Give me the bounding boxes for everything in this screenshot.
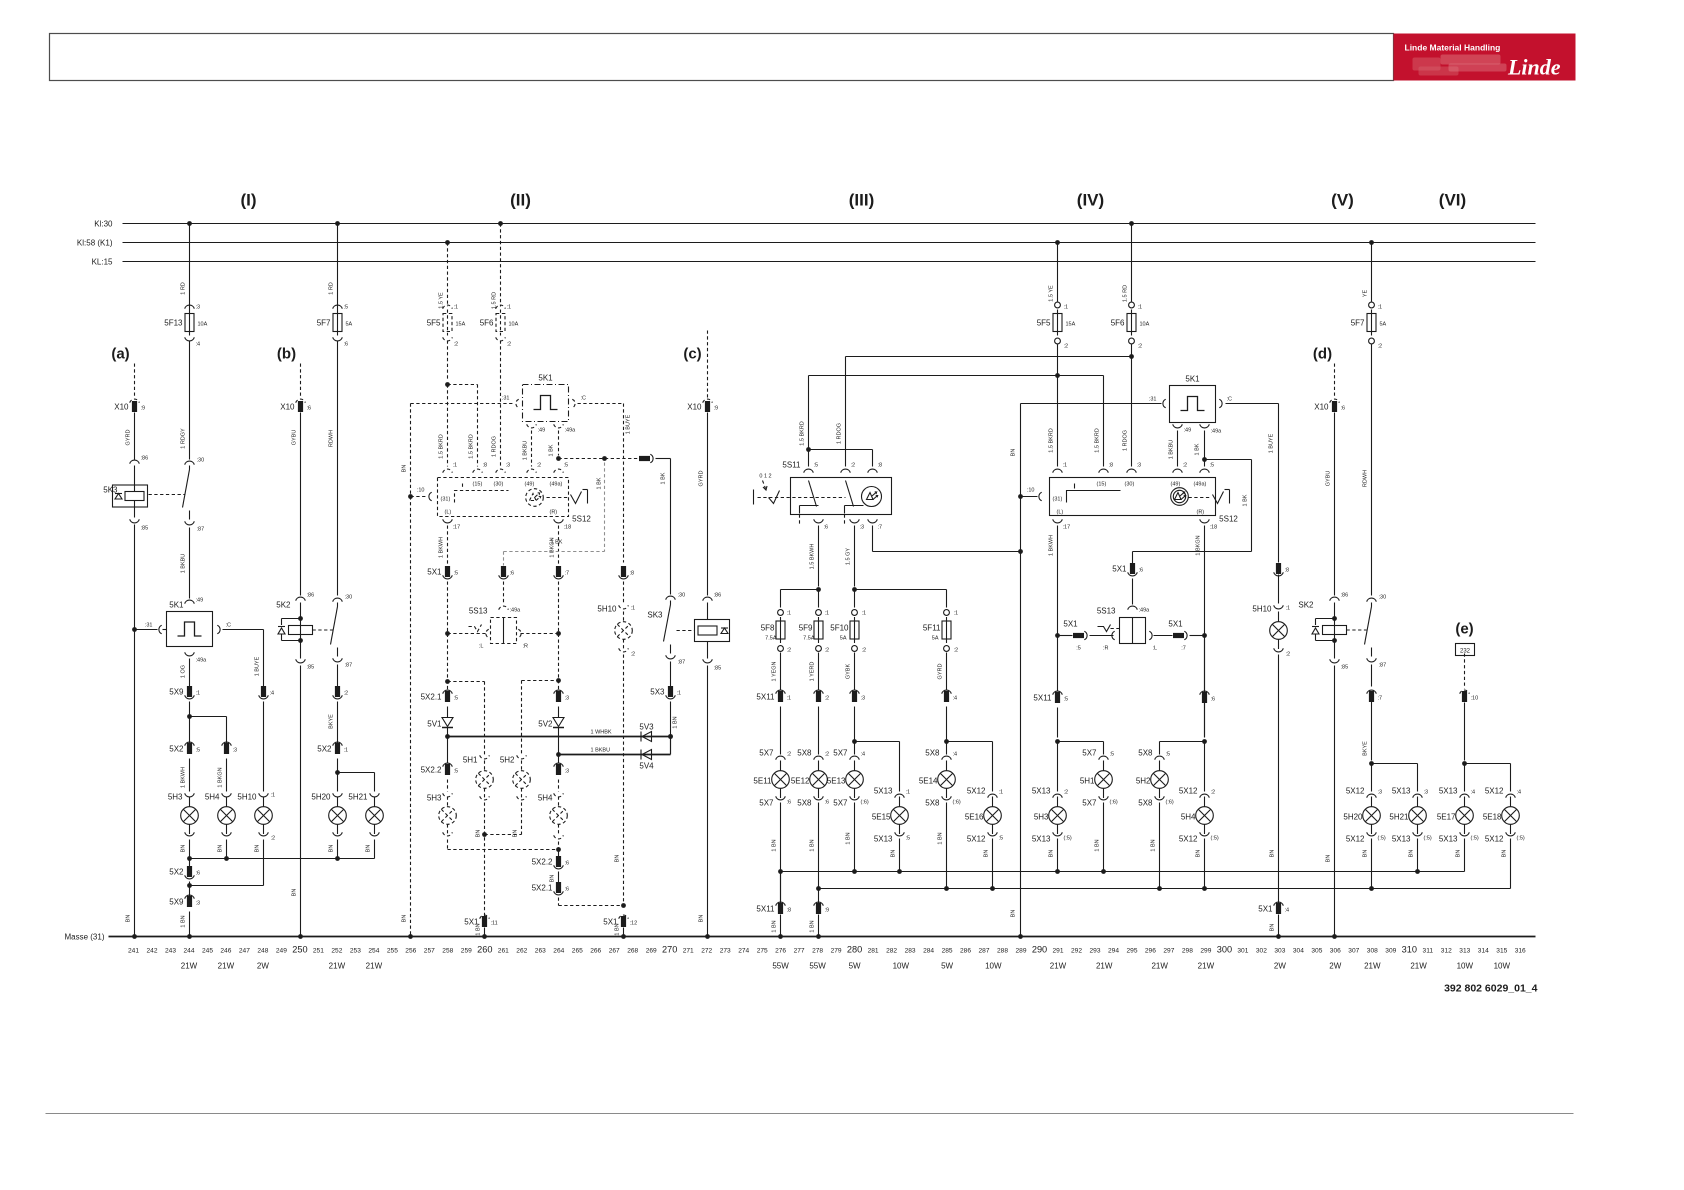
wire KL:30 bus: [123, 223, 1536, 225]
svg-text:5X8: 5X8: [925, 749, 940, 758]
svg-text:248: 248: [257, 948, 268, 955]
wire 1.5 GY: [854, 526, 856, 587]
svg-text:287: 287: [978, 948, 989, 955]
svg-text:232: 232: [1460, 649, 1471, 655]
connector 5X1:7 (IV): [1173, 633, 1184, 638]
wire 1 RD from KL:30: [187, 221, 192, 226]
svg-text::49: :49: [538, 428, 546, 434]
wire feed bus to 5F6 IV: [846, 356, 1132, 358]
svg-text:(:6): (:6): [1110, 800, 1118, 806]
footer rule: [46, 1113, 1574, 1115]
svg-text:5A: 5A: [840, 636, 847, 642]
wire GYRD: [707, 413, 709, 596]
svg-text:5H10: 5H10: [597, 605, 617, 614]
wire branch to 5H21: [1372, 763, 1418, 765]
wire lamp return bus B: [819, 888, 1511, 890]
svg-text:X10: X10: [280, 403, 295, 412]
svg-text:5A: 5A: [1380, 322, 1387, 328]
svg-text::31: :31: [1149, 397, 1157, 403]
junction: [1018, 549, 1023, 554]
wire 1 BN: [1103, 803, 1105, 872]
svg-text::3: :3: [565, 769, 570, 775]
node :86 relay SK3: [703, 597, 713, 601]
svg-text::8: :8: [878, 463, 883, 469]
svg-text::3: :3: [860, 525, 865, 531]
wire BN: [992, 839, 994, 889]
svg-text:5E13: 5E13: [827, 777, 846, 786]
lamp 5H3 (II): [447, 780, 449, 792]
svg-text:265: 265: [572, 948, 583, 955]
svg-text:BN: BN: [329, 845, 335, 853]
wire branch to 5H1: [1058, 741, 1104, 743]
node :7 5S11: [868, 519, 878, 523]
lamp 5H10 (V): [1278, 575, 1280, 604]
junction: [1202, 739, 1207, 744]
svg-text::7: :7: [1181, 646, 1186, 652]
svg-text::30: :30: [197, 458, 205, 464]
lamp 5H4: [222, 793, 232, 797]
svg-text::18: :18: [1210, 525, 1218, 531]
wire BN to Masse 272: [707, 666, 709, 937]
junction: [1055, 869, 1060, 874]
svg-text::18: :18: [564, 525, 572, 531]
wire: [447, 728, 449, 764]
wire dashed: [447, 840, 449, 850]
svg-text:5X13: 5X13: [1439, 787, 1458, 796]
svg-text:5E11: 5E11: [753, 777, 772, 786]
svg-text:(L): (L): [445, 510, 452, 516]
connector 5X1:7: [556, 566, 561, 577]
svg-text:5H3: 5H3: [168, 793, 183, 802]
svg-text::2: :2: [954, 648, 959, 654]
svg-text::17: :17: [1063, 525, 1071, 531]
lamp 5E16 with 5X12 connectors: [988, 794, 998, 798]
svg-text:5S13: 5S13: [469, 607, 488, 616]
svg-text:5X11: 5X11: [756, 693, 775, 702]
svg-text:(c): (c): [683, 346, 701, 363]
svg-text:1.5 YE: 1.5 YE: [1049, 285, 1055, 302]
svg-text:277: 277: [794, 948, 805, 955]
svg-text:5H4: 5H4: [205, 793, 220, 802]
junction: [668, 734, 673, 739]
lamp 5E18 with 5X12 connectors: [1506, 794, 1516, 798]
svg-text:284: 284: [923, 948, 934, 955]
svg-text:266: 266: [590, 948, 601, 955]
wire dashed 5H2 feed: [522, 680, 559, 682]
svg-text:258: 258: [442, 948, 453, 955]
svg-text:1 BN: 1 BN: [772, 839, 778, 851]
svg-text:RDWH: RDWH: [1363, 470, 1369, 487]
junction Masse 241: [132, 934, 137, 939]
junction: [445, 679, 450, 684]
node 232 box: [1456, 644, 1475, 656]
svg-text::85: :85: [1341, 665, 1349, 671]
junction: [1129, 354, 1134, 359]
junction: [944, 886, 949, 891]
svg-text::2: :2: [1064, 344, 1069, 350]
wire 1 BN: [854, 803, 856, 872]
wire GYRD: [946, 653, 948, 691]
svg-text:BN: BN: [402, 465, 408, 473]
wire Masse 31 ground bus: [109, 936, 1536, 938]
svg-text::1: :1: [454, 305, 459, 311]
wire dashed to SK3 coil feed: [559, 458, 639, 460]
svg-text:1 BN: 1 BN: [938, 832, 944, 844]
svg-text:2W: 2W: [257, 962, 269, 971]
connector 5X2.2:3: [554, 763, 564, 767]
svg-text::31: :31: [145, 623, 153, 629]
svg-text:5F7: 5F7: [1351, 319, 1365, 328]
svg-text::2: :2: [851, 463, 856, 469]
connector 5X1:12: [619, 915, 629, 919]
svg-text::7: :7: [1378, 696, 1383, 702]
svg-text::5: :5: [454, 696, 459, 702]
svg-text:5K2: 5K2: [276, 601, 291, 610]
svg-text:1.5 BKRD: 1.5 BKRD: [439, 434, 445, 458]
connector 5X2.1:6: [556, 882, 561, 893]
svg-text::C: :C: [1227, 397, 1233, 403]
svg-text:GYBU: GYBU: [292, 430, 298, 446]
junction: [621, 903, 626, 908]
svg-text:(R): (R): [550, 510, 558, 516]
svg-text:307: 307: [1348, 948, 1359, 955]
svg-text:(L): (L): [1057, 510, 1064, 516]
svg-text:1 BN: 1 BN: [476, 923, 482, 935]
wire 1.5 BKRD riser :8: [1103, 376, 1105, 467]
wire 1.5 BKRD: [1057, 345, 1059, 467]
connector 5X11:2: [814, 690, 824, 694]
wire BN: [1204, 839, 1206, 889]
connector 5X2.1:5: [443, 690, 453, 694]
wire BN: [1464, 839, 1466, 872]
Linde logo box: [1394, 34, 1576, 81]
svg-text::4: :4: [1471, 790, 1476, 796]
svg-text::6: :6: [344, 342, 349, 348]
wire: [189, 702, 191, 744]
wire 1 WHBK: [448, 736, 671, 738]
svg-text:5H3: 5H3: [1034, 813, 1049, 822]
svg-text:285: 285: [942, 948, 953, 955]
wire BN: [189, 840, 191, 867]
svg-text:274: 274: [738, 948, 749, 955]
svg-text:10A: 10A: [509, 322, 519, 328]
svg-text::6: :6: [565, 887, 570, 893]
wire 1 BN: [780, 803, 782, 909]
svg-text:X10: X10: [1314, 403, 1329, 412]
svg-text::6: :6: [565, 861, 570, 867]
svg-text:5F6: 5F6: [1111, 319, 1125, 328]
indicator lamp in 5S11: [862, 487, 882, 507]
junction: [1157, 886, 1162, 891]
svg-text:5X1: 5X1: [427, 568, 442, 577]
svg-text:5W: 5W: [849, 962, 861, 971]
svg-text:5K1: 5K1: [1185, 375, 1200, 384]
svg-text::11: :11: [491, 921, 498, 927]
svg-text:1 RD: 1 RD: [181, 282, 187, 295]
wire 1 RDOG dashed: [500, 341, 502, 467]
wire 1 BN to Masse 244: [189, 912, 191, 937]
junction: [1055, 739, 1060, 744]
wire GYBU: [300, 413, 302, 596]
connector 5X1:6: [501, 566, 506, 577]
svg-text:1.5 BKRD: 1.5 BKRD: [1095, 428, 1101, 452]
svg-text:5X8: 5X8: [1138, 799, 1153, 808]
node :85 relay SK3: [703, 659, 713, 663]
wire BN dashed: [623, 655, 625, 906]
svg-text:5X13: 5X13: [874, 787, 893, 796]
wire to 5S13 left: [1090, 635, 1114, 637]
wire BKYE: [337, 702, 339, 744]
svg-text:243: 243: [165, 948, 176, 955]
svg-text::L: :L: [479, 644, 484, 650]
node :17 (II): [443, 519, 453, 523]
wire GYBU: [1334, 413, 1336, 596]
wire 1 RD from KL:30: [335, 221, 340, 226]
wire dashed 5H1 feed: [448, 681, 485, 683]
svg-text:245: 245: [202, 948, 213, 955]
wire 1 BN to Masse: [623, 928, 625, 937]
svg-text:283: 283: [905, 948, 916, 955]
svg-text:YE: YE: [1363, 290, 1369, 298]
wire 5K1:C to 5H10 feed: [223, 629, 264, 631]
junction: [816, 587, 821, 592]
junction: [1055, 373, 1060, 378]
wire X10:6d dashed lead: [1334, 364, 1336, 398]
svg-text::8: :8: [630, 571, 635, 577]
junction: [602, 456, 607, 461]
svg-text:5H3: 5H3: [427, 794, 442, 803]
svg-text:55W: 55W: [809, 962, 826, 971]
redacted text blur: [1413, 58, 1441, 71]
svg-text::2: :2: [1138, 344, 1143, 350]
svg-text::2: :2: [787, 752, 792, 758]
wire 5K1:31 to BN dashed: [411, 403, 515, 405]
svg-text:294: 294: [1108, 948, 1119, 955]
flasher contact symbol (IV): [1067, 491, 1121, 503]
svg-text:1 RDOG: 1 RDOG: [492, 436, 498, 457]
connector X10:6 (d): [1330, 399, 1340, 403]
wire branch to 5H4: [190, 716, 227, 718]
junction: [806, 447, 811, 452]
lamp 5H3 with 5X13 connectors: [1057, 742, 1059, 792]
svg-text:5V4: 5V4: [639, 762, 654, 771]
lamp 5H3: [185, 793, 195, 797]
svg-text::4: :4: [1285, 908, 1290, 914]
svg-text:BN: BN: [402, 915, 408, 923]
wire branch to 5F8: [781, 589, 819, 591]
svg-text::8: :8: [483, 463, 488, 469]
svg-text:5X1: 5X1: [1112, 565, 1127, 574]
svg-text:246: 246: [220, 948, 231, 955]
svg-text:5X12: 5X12: [967, 835, 986, 844]
wire dashed coil-contact link 5K2: [313, 629, 334, 631]
svg-text:RDWH: RDWH: [329, 430, 335, 447]
svg-text:(:6): (:6): [953, 800, 961, 806]
svg-text::10: :10: [417, 488, 425, 494]
svg-text::85: :85: [307, 665, 315, 671]
wire KL:58 bus: [123, 242, 1536, 244]
svg-text::1: :1: [507, 305, 512, 311]
svg-text:(:6): (:6): [1166, 800, 1174, 806]
junction: [1055, 633, 1060, 638]
wire 1.5 YE dashed from KL:58: [445, 240, 450, 245]
svg-text::1: :1: [271, 793, 276, 799]
wire dashed: [447, 341, 449, 381]
junction: [187, 883, 192, 888]
svg-text:1 BK: 1 BK: [1243, 494, 1249, 506]
lamp 5H21 (I): [370, 793, 380, 797]
svg-text::1: :1: [787, 611, 792, 617]
svg-text:(:5): (:5): [1378, 836, 1386, 842]
svg-text::1: :1: [344, 748, 349, 754]
svg-text:21W: 21W: [1364, 962, 1381, 971]
wire 1 BN: [670, 702, 672, 755]
wire 1 BN to Masse 260: [484, 928, 486, 937]
svg-text:5E17: 5E17: [1437, 813, 1456, 822]
svg-text::1: :1: [453, 463, 458, 469]
lamp 5E11 with 5X7 connectors: [776, 756, 786, 760]
svg-text:1 BK: 1 BK: [551, 540, 563, 546]
svg-text:271: 271: [683, 948, 694, 955]
svg-text:(:5): (:5): [1211, 836, 1219, 842]
svg-text::2: :2: [1211, 790, 1216, 796]
svg-text:5F7: 5F7: [317, 319, 331, 328]
svg-text:268: 268: [627, 948, 638, 955]
svg-text:1 BUYE: 1 BUYE: [626, 414, 632, 434]
svg-text::3: :3: [506, 463, 511, 469]
wire 5H10 return: [190, 885, 264, 887]
svg-text:10A: 10A: [198, 322, 208, 328]
wire branch to 5E18: [1465, 763, 1511, 765]
svg-text:15A: 15A: [1066, 322, 1076, 328]
svg-text:1 BKGN: 1 BKGN: [1196, 535, 1202, 555]
svg-text::5: :5: [999, 836, 1004, 842]
switch 5S13 (IV): [1132, 579, 1134, 605]
svg-text:(49): (49): [1171, 482, 1181, 488]
svg-text:5H20: 5H20: [311, 793, 331, 802]
wire BN to Masse terminal 241: [134, 525, 136, 937]
wire feed bus to 5F5 IV: [809, 375, 1104, 377]
wire branch to 5S11:8: [809, 449, 873, 451]
svg-text::3: :3: [1424, 790, 1429, 796]
wire 1 OG: [189, 659, 191, 687]
svg-text:BN: BN: [1049, 850, 1055, 858]
svg-text:GYBU: GYBU: [1326, 471, 1332, 487]
svg-text:288: 288: [997, 948, 1008, 955]
svg-text:(R): (R): [1197, 510, 1205, 516]
connector 5X11:3: [850, 690, 860, 694]
svg-text:10W: 10W: [985, 962, 1002, 971]
svg-text:304: 304: [1293, 948, 1304, 955]
svg-text:5X11: 5X11: [1033, 694, 1052, 703]
svg-text:(15): (15): [1097, 482, 1107, 488]
svg-text::6: :6: [1211, 697, 1216, 703]
wire: [447, 707, 449, 718]
wire RDWH: [337, 341, 339, 596]
wire to 5F10: [854, 590, 856, 608]
svg-text:244: 244: [183, 948, 194, 955]
svg-text:1.5 BKRD: 1.5 BKRD: [800, 421, 806, 445]
svg-text:5X2: 5X2: [169, 868, 184, 877]
svg-text:(30): (30): [494, 482, 504, 488]
svg-text::10: :10: [1471, 696, 1479, 702]
svg-text:X10: X10: [114, 403, 129, 412]
connector 5X11:9: [814, 902, 824, 906]
svg-text::31: :31: [502, 396, 510, 402]
svg-text:5S13: 5S13: [1097, 607, 1116, 616]
svg-text:1 BKWH: 1 BKWH: [181, 767, 187, 788]
svg-text::49a: :49a: [1139, 608, 1151, 614]
svg-text:279: 279: [831, 948, 842, 955]
svg-text:(a): (a): [111, 346, 129, 363]
svg-text::3: :3: [1137, 463, 1142, 469]
svg-text::5: :5: [196, 748, 201, 754]
svg-text:BN: BN: [1270, 850, 1276, 858]
svg-text:5X2: 5X2: [317, 745, 332, 754]
svg-text:1 RDGY: 1 RDGY: [181, 428, 187, 449]
wire BN dashed to Masse 256: [410, 404, 412, 937]
svg-text:5H2: 5H2: [1136, 777, 1151, 786]
svg-text::1: :1: [906, 790, 911, 796]
wire 1 BKBU: [1177, 431, 1179, 467]
connector 5X1:4: [1274, 902, 1284, 906]
svg-text:267: 267: [609, 948, 620, 955]
svg-text:275: 275: [757, 948, 768, 955]
svg-text::2: :2: [344, 691, 349, 697]
svg-text:BN: BN: [126, 915, 132, 923]
svg-text::6: :6: [787, 800, 792, 806]
svg-text:5S11: 5S11: [782, 461, 801, 470]
svg-text::5: :5: [1166, 752, 1171, 758]
wire: [1464, 703, 1466, 761]
wire dashed: [447, 582, 449, 691]
svg-text:SK3: SK3: [647, 611, 663, 620]
svg-text:276: 276: [775, 948, 786, 955]
switch 5S12 (II): [571, 492, 582, 504]
wire: [189, 882, 191, 897]
wire: [818, 707, 820, 755]
wire BN dashed: [484, 803, 486, 917]
wire 1.5 BKRD dashed: [447, 385, 449, 467]
wire dashed coil-contact link 5K3: [149, 494, 185, 496]
svg-text:264: 264: [553, 948, 564, 955]
svg-text:BKYE: BKYE: [1363, 741, 1369, 756]
svg-text::6: :6: [1341, 406, 1346, 412]
svg-text:2W: 2W: [1274, 962, 1286, 971]
svg-text:5H21: 5H21: [348, 793, 368, 802]
wire: [1057, 708, 1059, 738]
wire 1.5 RD dashed from KL:30: [498, 221, 503, 226]
junction: [897, 869, 902, 874]
svg-text:316: 316: [1515, 948, 1526, 955]
svg-text:255: 255: [387, 948, 398, 955]
svg-text:270: 270: [662, 945, 677, 955]
svg-text:5X12: 5X12: [967, 787, 986, 796]
wire 1 RDOG riser 5S11:2: [845, 357, 847, 467]
wire 5K1:31 to ground wire: [135, 629, 158, 631]
svg-text:259: 259: [461, 948, 472, 955]
node :10 left pin (II): [429, 492, 432, 501]
svg-text::R: :R: [1103, 646, 1109, 652]
junction: [668, 734, 673, 739]
svg-text:BN: BN: [699, 915, 705, 923]
svg-text:5X13: 5X13: [1439, 835, 1458, 844]
svg-text:(b): (b): [277, 346, 296, 363]
svg-text::6: :6: [196, 871, 201, 877]
svg-text:1 BN: 1 BN: [810, 920, 816, 932]
svg-text:5H20: 5H20: [1343, 813, 1363, 822]
svg-text:GYRD: GYRD: [126, 430, 132, 446]
